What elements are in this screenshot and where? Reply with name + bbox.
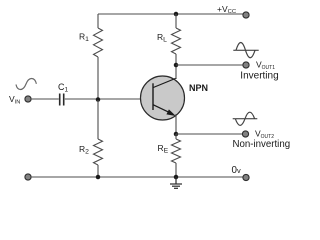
terminal Vout2 <box>242 131 248 137</box>
terminal 0v <box>243 174 249 180</box>
transistor Q1 emitter arrow <box>166 109 175 116</box>
transistor Q1 emitter diagonal <box>153 105 173 114</box>
svg-text:R2: R2 <box>79 144 89 156</box>
svg-text:+VCC: +VCC <box>217 4 236 15</box>
junction RE ground <box>174 175 179 180</box>
svg-text:Inverting: Inverting <box>240 71 278 82</box>
capacitor C1 <box>60 94 64 106</box>
svg-text:Non-inverting: Non-inverting <box>233 139 291 150</box>
junction R2 ground <box>96 175 101 180</box>
resistor R1 <box>94 14 103 100</box>
transistor Q1 collector diagonal <box>153 78 176 88</box>
junction collector node <box>174 63 179 68</box>
wire collector node to Vout1 <box>176 64 244 66</box>
transistor Q1 base bar <box>152 83 154 110</box>
wire top power rail <box>98 13 244 15</box>
svg-text:NPN: NPN <box>189 83 208 93</box>
svg-text:VOUT1: VOUT1 <box>256 60 275 72</box>
resistor RL <box>172 14 181 65</box>
terminal Vout1 <box>243 62 249 68</box>
wire ground rail <box>31 176 243 178</box>
ground symbol <box>170 177 182 188</box>
junction top rail / RL <box>174 12 179 17</box>
svg-text:C1: C1 <box>58 82 69 94</box>
terminal ground left <box>25 174 31 180</box>
wire C1 to base <box>65 98 153 100</box>
input sine symbol <box>16 78 36 89</box>
svg-text:0v: 0v <box>232 165 241 176</box>
resistor RE <box>172 134 181 177</box>
terminal +Vcc <box>243 12 249 18</box>
output sine symbol non-inverting <box>233 112 258 125</box>
wire collector <box>175 65 177 79</box>
wire emitter node to Vout2 <box>176 133 244 135</box>
svg-text:RE: RE <box>158 143 169 155</box>
svg-text:RL: RL <box>157 32 167 44</box>
wire emitter <box>175 114 177 134</box>
svg-text:R1: R1 <box>79 32 89 44</box>
wire Vin to C1 <box>31 98 59 100</box>
resistor R2 <box>94 100 103 177</box>
transistor Q1 body <box>141 76 185 120</box>
junction emitter node <box>174 132 179 137</box>
output sine symbol inverting <box>233 43 258 58</box>
svg-text:VIN: VIN <box>9 94 20 106</box>
junction base node <box>96 97 101 102</box>
terminal Vin <box>25 96 31 102</box>
